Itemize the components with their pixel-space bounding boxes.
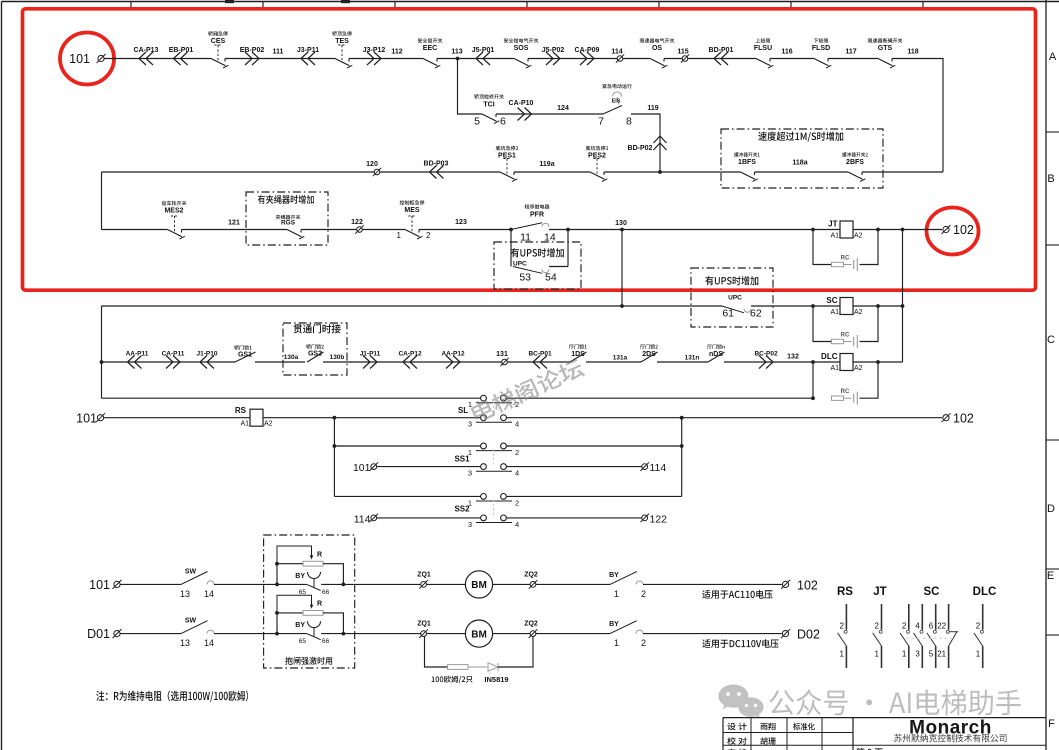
switch TCI (car-top inspection switch) pins 5-6	[482, 114, 497, 121]
svg-text:A2: A2	[854, 309, 863, 316]
svg-text:21: 21	[937, 650, 946, 659]
wire SL 3-4 to terminal 102	[506, 417, 942, 419]
svg-text:DLC: DLC	[973, 586, 997, 598]
svg-text:A1: A1	[830, 232, 839, 239]
wire 1DS to 2DS node 131a	[586, 361, 641, 363]
svg-text:1: 1	[976, 650, 981, 659]
resistor R holding branch	[277, 613, 303, 634]
dashed box - add when UPS fitted (1)	[494, 242, 581, 289]
contact BY pins 65-66 (brake release)	[308, 621, 321, 628]
svg-text:SS1: SS1	[454, 455, 470, 464]
connector CA-P09	[580, 52, 594, 65]
wire PES2 to junction with BD-P02	[604, 171, 660, 173]
title block cell - checked by	[727, 737, 747, 745]
right border zone boundary ticks	[1046, 131, 1059, 133]
svg-text:BD-P01: BD-P01	[709, 47, 734, 54]
switch FLSU (upper final limit)	[756, 59, 771, 66]
svg-text:EEC: EEC	[423, 45, 437, 52]
svg-text:RGS: RGS	[281, 220, 296, 227]
svg-text:119a: 119a	[539, 161, 554, 168]
svg-text:101: 101	[69, 52, 90, 66]
svg-text:101: 101	[76, 412, 97, 426]
wire bottom rail from left bus through SL 1-2	[102, 397, 481, 399]
title block frame	[723, 717, 1046, 719]
svg-text:F: F	[1048, 718, 1055, 730]
svg-text:1: 1	[397, 231, 402, 240]
svg-text:D: D	[1047, 503, 1055, 515]
relay coil RS pins A1-A2	[250, 409, 263, 426]
svg-text:SC: SC	[826, 296, 837, 305]
left SS bus wire	[333, 418, 335, 497]
svg-text:J3-P11: J3-P11	[297, 47, 319, 54]
switch block SS1 contacts 3-4	[476, 470, 512, 472]
contact BY pins 1-2	[610, 621, 637, 634]
connector J5-P01	[476, 52, 490, 65]
svg-text:ZQ1: ZQ1	[417, 571, 431, 578]
switch TES (car-top emergency stop)	[335, 59, 350, 66]
terminal 114 of SS1 row	[642, 464, 648, 470]
svg-text:4: 4	[515, 520, 519, 529]
svg-text:1: 1	[902, 650, 907, 659]
right SS bus wire	[681, 418, 683, 497]
svg-text:A: A	[1049, 51, 1057, 63]
svg-text:RS: RS	[235, 406, 247, 415]
junction R-branch left	[275, 583, 279, 587]
svg-text:13: 13	[180, 638, 190, 648]
svg-text:BC-P02: BC-P02	[754, 351, 778, 358]
wire 2BFS to right corner	[862, 171, 943, 173]
svg-text:CA-P10: CA-P10	[509, 100, 534, 107]
junction RC left on SL rail	[811, 396, 815, 400]
wire node 113 down to inspection branch	[458, 59, 483, 115]
value label 100ohm/2pcs	[432, 676, 473, 684]
switch EIS (emergency electric operation) pins 7-8	[603, 106, 622, 115]
connector BD-P01	[714, 52, 728, 65]
svg-text:5: 5	[929, 650, 934, 659]
switch block SL contacts 1-2	[476, 402, 512, 404]
svg-text:GS1: GS1	[238, 352, 252, 359]
svg-text:PFR: PFR	[530, 212, 544, 219]
wire TCI to EIS	[496, 113, 603, 115]
connector BC-P01	[533, 356, 547, 369]
wire SS2 1-2 row	[334, 495, 480, 497]
svg-text:1: 1	[614, 589, 619, 599]
svg-text:SW: SW	[185, 568, 197, 575]
svg-text:ZQ2: ZQ2	[524, 571, 538, 578]
connector J3-P12	[367, 52, 381, 65]
relay contact UPC pins 53-54	[513, 267, 542, 274]
wire node130 down to door-lock section	[621, 230, 623, 307]
svg-text:UPC: UPC	[728, 295, 742, 302]
wire door section top rail	[102, 305, 723, 307]
cropped header text fragments at top edge	[225, 0, 234, 3]
svg-text:FLSU: FLSU	[754, 45, 772, 52]
switch 2BFS (buffer switch 2)	[848, 172, 863, 179]
terminal 102 (safety chain output)	[943, 226, 949, 232]
UPS bypass branch wires	[510, 230, 512, 267]
wire RGS to MES node 122	[301, 229, 405, 231]
red circle highlighting terminal 102	[927, 208, 979, 255]
contact BY pins 1-2	[610, 572, 637, 585]
wire GS2 to DS chain	[323, 361, 570, 363]
wire PES1 to PES2 node 119a	[514, 171, 590, 173]
svg-text:1DS: 1DS	[571, 351, 585, 358]
relay contact UPC pins 61-62	[722, 306, 744, 313]
wire 1BFS to 2BFS node 118a	[755, 171, 849, 173]
wire SS1 1-2 row	[334, 445, 480, 447]
svg-text:2: 2	[641, 589, 646, 599]
svg-text:2: 2	[426, 231, 431, 240]
svg-text:EB-P01: EB-P01	[169, 47, 194, 54]
svg-text:R: R	[317, 552, 322, 559]
wire TES to EEC	[349, 58, 423, 60]
junction node at BD-P02	[658, 170, 662, 174]
svg-text:13: 13	[180, 589, 190, 599]
svg-text:4: 4	[515, 420, 519, 429]
svg-text:121: 121	[228, 220, 240, 227]
svg-text:TES: TES	[335, 38, 349, 45]
switch 1DS (landing door lock 1)	[570, 352, 587, 362]
wire UPC 62 to SC coil	[751, 305, 840, 307]
svg-text:4: 4	[915, 622, 920, 631]
connector CA-P12	[403, 356, 417, 369]
svg-text:IN5819: IN5819	[484, 675, 508, 684]
title block cell - designed by	[727, 723, 746, 730]
resistor R holding branch	[277, 564, 303, 585]
red highlight rectangle around safety-chain section	[23, 9, 1036, 290]
svg-text:2BFS: 2BFS	[846, 159, 864, 166]
terminal 122 of SS2 row	[642, 515, 648, 521]
svg-text:1: 1	[614, 638, 619, 648]
svg-text:65: 65	[299, 638, 307, 645]
svg-text:MES: MES	[404, 207, 420, 214]
switch MES2 (hand-winding wheel switch)	[168, 230, 183, 237]
svg-text:6: 6	[929, 622, 934, 631]
svg-text:2: 2	[641, 638, 646, 648]
svg-text:120: 120	[366, 161, 378, 168]
connector J3-P11	[301, 52, 315, 65]
contact BY pins 65-66 (brake release)	[308, 572, 321, 579]
wire RS to SL 3-4	[263, 417, 481, 419]
wire OS to FLSU	[664, 58, 756, 60]
top border zone tick marks	[130, 2, 132, 9]
wire SS2 3-4 row	[377, 517, 481, 519]
wire UPC contact	[549, 266, 568, 268]
wire door chain left segment	[102, 361, 236, 363]
connector CA-P13	[139, 52, 153, 65]
svg-text:OS: OS	[652, 45, 662, 52]
svg-text:RC: RC	[841, 389, 850, 395]
svg-text:123: 123	[455, 219, 467, 226]
wire SW to BY	[214, 633, 307, 635]
svg-text:118: 118	[907, 49, 918, 56]
svg-text:R: R	[317, 601, 322, 608]
switch block SS1 contacts 1-2	[476, 450, 512, 452]
connector AA-P11	[128, 356, 142, 369]
wire 2DS to nDS node 131n	[657, 361, 708, 363]
svg-text:CA-P12: CA-P12	[398, 351, 422, 358]
svg-text:131: 131	[496, 351, 508, 358]
svg-text:BY: BY	[295, 573, 305, 580]
svg-text:B: B	[1047, 173, 1054, 185]
svg-text:3: 3	[915, 650, 920, 659]
svg-text:EB-P02: EB-P02	[240, 47, 265, 54]
svg-text:A2: A2	[854, 365, 863, 372]
svg-text:nDS: nDS	[709, 351, 723, 358]
svg-text:101: 101	[353, 462, 371, 474]
junction to SC/DLC return bus	[901, 228, 905, 232]
svg-text:CA-P13: CA-P13	[134, 47, 159, 54]
svg-text:62: 62	[750, 308, 762, 320]
left bus wire down rows 4-6	[101, 306, 103, 398]
switch SW pins 13-14	[181, 572, 208, 585]
sheet top border line	[2, 1, 1059, 3]
svg-text:66: 66	[322, 589, 330, 596]
svg-text:CES: CES	[211, 38, 226, 45]
svg-text:JT: JT	[828, 220, 837, 229]
svg-text:53: 53	[519, 272, 531, 284]
junction R-branch right	[342, 583, 346, 587]
svg-text:RC: RC	[841, 333, 850, 339]
svg-text:A1: A1	[830, 365, 839, 372]
switch SOS (safety gear switch)	[514, 59, 529, 66]
RC snubber of SC	[813, 306, 832, 342]
svg-text:GS2: GS2	[308, 351, 322, 358]
svg-text:132: 132	[787, 354, 799, 361]
RC snubber of DLC	[812, 362, 814, 398]
svg-text:1BFS: 1BFS	[738, 159, 756, 166]
svg-text:D02: D02	[797, 628, 820, 642]
diagonal forum watermark	[469, 357, 585, 424]
svg-text:AA-P12: AA-P12	[441, 351, 465, 358]
public account watermark text	[769, 689, 1020, 715]
wire left bus row2 down to row3	[101, 172, 103, 230]
svg-text:102: 102	[953, 412, 974, 426]
wire row3 left segment	[102, 229, 168, 231]
connector EB-P01	[174, 52, 188, 65]
application note text	[702, 590, 772, 599]
svg-text:111: 111	[273, 49, 284, 56]
brake magnet BM	[465, 620, 492, 647]
svg-text:113: 113	[451, 49, 462, 56]
svg-text:124: 124	[557, 105, 569, 112]
switch CES (car emergency stop)	[211, 59, 226, 66]
switch SW pins 13-14	[181, 621, 208, 634]
switch GTS (governor tension switch)	[878, 59, 893, 66]
svg-text:J1-P11: J1-P11	[360, 351, 381, 358]
svg-text:3: 3	[468, 520, 472, 529]
connector AA-P12	[446, 356, 460, 369]
svg-text:122: 122	[351, 219, 363, 226]
svg-text:2: 2	[902, 622, 907, 631]
svg-text:102: 102	[953, 223, 974, 237]
svg-text:2: 2	[976, 622, 981, 631]
junction at DLC branch	[811, 360, 815, 364]
switch GS2 (car door lock 2)	[307, 352, 324, 362]
svg-text:FLSD: FLSD	[812, 45, 830, 52]
svg-text:CA-P09: CA-P09	[575, 47, 600, 54]
junction at SC branch	[811, 304, 815, 308]
svg-text:54: 54	[545, 272, 557, 284]
svg-text:BY: BY	[295, 622, 305, 629]
svg-text:A1: A1	[830, 309, 839, 316]
svg-text:4: 4	[515, 469, 519, 478]
svg-text:CA-P11: CA-P11	[162, 351, 185, 358]
connector BD-P03	[430, 166, 444, 179]
wire left bus corner row2	[102, 171, 501, 173]
svg-text:22: 22	[937, 622, 946, 631]
svg-text:A2: A2	[854, 232, 863, 239]
sheet left border line	[1, 2, 3, 750]
svg-text:122: 122	[650, 513, 668, 525]
switch GS1 (car door lock 1)	[235, 352, 256, 362]
terminal 102	[782, 581, 788, 587]
svg-text:2: 2	[515, 448, 519, 457]
svg-text:BY: BY	[609, 621, 619, 628]
svg-text:J5-P01: J5-P01	[472, 47, 495, 54]
wire EIS to node 119 corner down	[631, 114, 660, 172]
svg-text:SC: SC	[924, 586, 940, 598]
switch PES1 (pit emergency stop 1)	[500, 172, 515, 179]
wire MES to PFR junction	[419, 229, 511, 231]
terminal 102 of RS row	[943, 415, 949, 421]
svg-text:D01: D01	[87, 627, 110, 641]
svg-text:AA-P11: AA-P11	[126, 351, 149, 358]
wire BM to ZQ2	[493, 633, 610, 635]
wire BY to terminal 102	[643, 583, 782, 585]
mechanical link SS1	[493, 449, 495, 465]
svg-text:PES1: PES1	[498, 153, 516, 160]
svg-text:102: 102	[797, 578, 818, 592]
svg-text:112: 112	[391, 49, 402, 56]
svg-text:66: 66	[322, 638, 330, 645]
svg-text:114: 114	[650, 462, 667, 474]
svg-text:61: 61	[722, 308, 734, 320]
application note text	[702, 639, 778, 648]
wire PFR to node 130	[549, 229, 568, 231]
wire JT coil to node 102	[853, 229, 942, 231]
svg-text:BC-P01: BC-P01	[528, 351, 552, 358]
dashed box - add when speed exceeds 1m/s	[721, 129, 883, 188]
junction SS bus left	[333, 416, 337, 420]
title block cell - cropped bottom row	[728, 749, 747, 750]
relay coil SC pins A1-A2	[840, 298, 853, 315]
svg-text:DLC: DLC	[821, 352, 838, 361]
connector J5-P02	[546, 52, 560, 65]
RC snubber of JT	[813, 230, 832, 265]
switch FLSD (lower final limit)	[814, 59, 829, 66]
svg-text:A1: A1	[240, 421, 249, 428]
svg-text:131n: 131n	[685, 355, 700, 362]
connector BD-P02 (vertical)	[654, 136, 667, 150]
junction door chain on left bus	[100, 360, 104, 364]
svg-text:3: 3	[468, 469, 472, 478]
svg-text:6: 6	[500, 116, 506, 128]
return bus wire from JT row down to SC and DLC rows	[902, 230, 904, 363]
svg-text:E: E	[1047, 570, 1054, 582]
wire CES to TES	[225, 58, 335, 60]
svg-text:RC: RC	[841, 256, 850, 262]
svg-text:14: 14	[204, 638, 214, 648]
connector EB-P02	[245, 52, 259, 65]
wire BY to box edge	[321, 583, 422, 585]
dashed box - add when rope gripper fitted	[246, 192, 328, 245]
svg-text:114: 114	[354, 513, 371, 525]
svg-text:130b: 130b	[330, 354, 345, 361]
switch OS (overspeed governor switch)	[650, 59, 665, 66]
svg-text:7: 7	[598, 116, 604, 128]
svg-text:BD-P03: BD-P03	[424, 161, 449, 168]
svg-text:SOS: SOS	[514, 45, 529, 52]
connector BC-P02	[759, 356, 773, 369]
junction R-branch right	[342, 632, 346, 636]
svg-text:A2: A2	[264, 421, 273, 428]
relay coil DLC pins A1-A2	[840, 354, 853, 371]
R adjust arrow loop	[277, 595, 312, 613]
svg-text:130a: 130a	[284, 354, 299, 361]
svg-text:119: 119	[647, 105, 658, 112]
svg-text:130: 130	[615, 220, 627, 227]
connector J1-P10	[200, 356, 214, 369]
wire 101 to RS coil	[104, 417, 250, 419]
connector J1-P11	[363, 356, 377, 369]
svg-text:3: 3	[468, 420, 472, 429]
svg-text:ZQ1: ZQ1	[417, 621, 431, 628]
mechanical link SS2	[493, 499, 495, 516]
svg-text:117: 117	[845, 49, 856, 56]
svg-text:14: 14	[204, 589, 214, 599]
wire 101 to CES	[104, 58, 211, 60]
SC contacts mechanical link	[906, 637, 953, 639]
connector CA-P10	[518, 108, 532, 121]
wire BY to terminal D02	[643, 633, 782, 635]
R adjust arrow loop	[277, 546, 312, 564]
wire DLC coil to return bus corner	[853, 361, 903, 363]
junction node130 branch on SC rail	[620, 304, 624, 308]
svg-text:JT: JT	[873, 586, 886, 598]
relay coil JT pins A1-A2	[840, 221, 853, 238]
svg-text:1: 1	[839, 650, 844, 659]
svg-text:UPC: UPC	[513, 261, 527, 268]
wechat icon watermark	[719, 685, 764, 719]
svg-text:GTS: GTS	[878, 45, 893, 52]
svg-text:116: 116	[781, 49, 792, 56]
wire SC coil to return bus	[853, 305, 903, 307]
svg-text:SL: SL	[458, 406, 468, 415]
dashed box - connect for through-door	[283, 323, 347, 375]
sheet inner right border line	[1045, 0, 1047, 750]
note text R holding resistor	[96, 691, 248, 702]
wire junction into buffer-switch box	[660, 171, 741, 173]
junction at JT branch	[811, 228, 815, 232]
wire 101 to SW	[120, 583, 181, 585]
mechanical link SL	[493, 401, 495, 416]
svg-text:RS: RS	[837, 586, 853, 598]
wire D01 to SW	[120, 633, 181, 635]
svg-text:BD-P02: BD-P02	[628, 145, 653, 152]
svg-text:8: 8	[626, 116, 632, 128]
wire MES2 to RGS	[182, 229, 288, 231]
svg-text:101: 101	[89, 578, 110, 592]
company name Suzhou Monarch Control Technology	[894, 734, 1007, 742]
junction after JT coil	[876, 228, 880, 232]
svg-text:MES2: MES2	[164, 208, 183, 215]
red circle highlighting terminal 101	[60, 33, 114, 85]
wire ZQ1 to brake motor	[427, 583, 465, 585]
wire BM to ZQ2	[493, 583, 610, 585]
svg-text:2DS: 2DS	[642, 351, 656, 358]
svg-text:BM: BM	[471, 580, 487, 591]
